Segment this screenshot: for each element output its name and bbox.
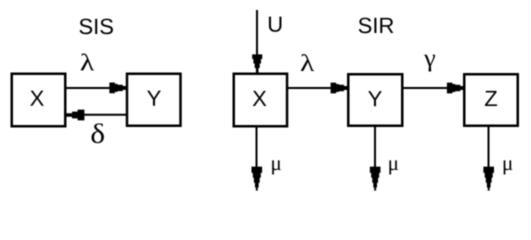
label Y (SIR box): [368, 91, 382, 106]
wire Y to X (SIS recovery): [81, 114, 127, 116]
wire Y to Z (SIR removal): [404, 87, 451, 89]
arrowhead into Y (SIR): [331, 83, 348, 94]
box Y (SIR infected compartment): [348, 74, 402, 126]
arrowhead death from Z: [483, 167, 494, 191]
wire Y down (SIR death from Y): [374, 127, 376, 170]
label mu (death rate from Z): [504, 160, 513, 174]
label lambda (SIR infection rate): [301, 54, 314, 71]
label delta (SIS recovery rate): [91, 123, 103, 143]
label SIS (model title): [79, 19, 112, 35]
arrowhead death from Y: [370, 167, 381, 191]
arrowhead into Z (SIR): [447, 83, 464, 94]
label U (birth rate): [269, 17, 281, 32]
wire X to Y (SIR infection): [287, 87, 334, 89]
label Z (SIR box): [485, 91, 497, 106]
box X (SIR susceptible compartment): [234, 74, 287, 127]
wire Z down (SIR death from Z): [488, 127, 490, 170]
label mu (death rate from X): [272, 160, 281, 174]
arrowhead into X top (SIR): [252, 54, 262, 72]
label X (SIR box): [253, 91, 267, 106]
arrowhead into X (SIS): [65, 110, 84, 121]
label mu (death rate from Y): [389, 160, 398, 174]
box X (SIS susceptible compartment): [12, 74, 66, 127]
arrowhead into Y (SIS): [109, 83, 126, 94]
wire U into X (SIR birth input): [256, 10, 258, 58]
label Y (SIS box): [147, 91, 161, 106]
arrowhead death from X: [252, 167, 263, 191]
label lambda (SIS infection rate): [81, 54, 94, 71]
label X (SIS box): [30, 91, 44, 106]
box Y (SIS infected compartment): [127, 74, 181, 126]
label SIR (model title): [359, 18, 394, 34]
box Z (SIR removed compartment): [464, 74, 518, 126]
wire X down (SIR death from X): [256, 127, 258, 170]
label gamma (SIR removal rate): [424, 55, 435, 72]
wire X to Y (SIS infection): [66, 87, 113, 89]
